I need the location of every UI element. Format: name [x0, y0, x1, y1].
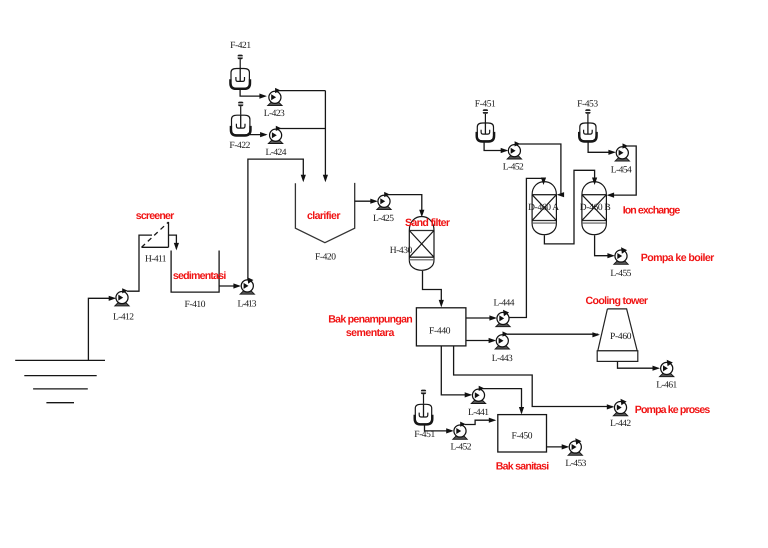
svg-text:Ion exchange: Ion exchange	[623, 204, 681, 216]
svg-text:L-443: L-443	[492, 354, 513, 364]
svg-text:Bak sanitasi: Bak sanitasi	[496, 460, 550, 472]
svg-text:L-452: L-452	[451, 443, 472, 453]
svg-text:Pompa ke proses: Pompa ke proses	[635, 404, 711, 416]
svg-text:L-453: L-453	[565, 459, 586, 469]
svg-text:H-411: H-411	[145, 255, 167, 265]
svg-text:F-420: F-420	[315, 253, 336, 263]
svg-text:Sand filter: Sand filter	[405, 217, 450, 229]
svg-text:sementara: sementara	[346, 327, 395, 339]
svg-text:D-460 A: D-460 A	[528, 203, 559, 213]
svg-text:Pompa ke boiler: Pompa ke boiler	[641, 252, 715, 264]
svg-text:F-450: F-450	[512, 432, 533, 442]
svg-text:P-460: P-460	[610, 332, 632, 342]
svg-text:L-425: L-425	[373, 214, 394, 224]
svg-text:sedimentasi: sedimentasi	[173, 270, 227, 282]
svg-text:F-440: F-440	[429, 327, 451, 337]
svg-text:L-454: L-454	[611, 166, 632, 176]
svg-text:clarifier: clarifier	[307, 210, 341, 222]
svg-text:L-423: L-423	[264, 109, 285, 119]
svg-text:F-422: F-422	[229, 141, 250, 151]
svg-text:Bak penampungan: Bak penampungan	[328, 313, 413, 325]
svg-text:L-455: L-455	[610, 269, 631, 279]
svg-text:screener: screener	[136, 210, 175, 222]
svg-text:F-453: F-453	[577, 99, 598, 109]
svg-text:F-410: F-410	[185, 300, 206, 310]
svg-text:L-461: L-461	[656, 380, 677, 390]
svg-text:D-460 B: D-460 B	[580, 203, 611, 213]
svg-text:L-424: L-424	[266, 148, 287, 158]
svg-text:L-441: L-441	[468, 408, 489, 418]
svg-text:L-412: L-412	[113, 313, 134, 323]
svg-text:Cooling tower: Cooling tower	[586, 295, 649, 307]
svg-text:L-444: L-444	[494, 299, 515, 309]
svg-text:L-413: L-413	[238, 299, 257, 309]
svg-text:L-452: L-452	[503, 163, 524, 173]
svg-text:L-442: L-442	[610, 419, 631, 429]
svg-text:F-421: F-421	[230, 41, 251, 51]
svg-text:H-430: H-430	[390, 246, 413, 256]
svg-text:F-451: F-451	[475, 99, 496, 109]
